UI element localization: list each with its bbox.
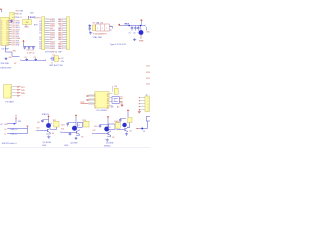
svg-text:IO21: IO21 [12,23,16,25]
svg-text:13: 13 [107,101,109,103]
red pin number U2 [8,21,9,23]
svg-text:IO21: IO21 [12,31,16,33]
svg-text:5V: 5V [61,58,64,60]
net label below Y1 [24,27,29,29]
svg-text:IO9: IO9 [16,40,19,42]
note text near SW [61,58,64,63]
svg-text:1K: 1K [81,137,84,139]
resistor R14 Q3 body [115,123,120,129]
svg-text:VIN: VIN [18,121,22,123]
svg-text:D4: D4 [53,23,55,25]
U1 reference label [2,48,10,50]
svg-text:VIN: VIN [16,14,20,16]
wire cap chain [24,59,44,61]
LED label below [139,41,144,43]
svg-text:3: 3 [148,104,149,106]
svg-text:21: 21 [6,36,8,38]
svg-text:30P: 30P [58,52,62,54]
svg-text:21: 21 [6,34,8,36]
net label beside flag [18,121,22,123]
svg-text:IO21: IO21 [12,27,16,29]
U3 left pin circles [87,95,89,101]
svg-text:B2: B2 [58,39,60,41]
transistor Q3 [108,131,111,136]
svg-text:14: 14 [107,98,109,100]
svg-text:D4: D4 [53,35,55,37]
SW1 name label [52,55,54,57]
svg-text:RXD: RXD [21,93,26,95]
svg-text:21: 21 [6,29,8,31]
XTAL caption [93,36,103,39]
svg-text:D15: D15 [16,43,19,45]
svg-text:5: 5 [95,103,96,105]
small label below right wire [143,131,146,133]
power flag Q1 [48,116,50,119]
svg-text:USB: USB [19,11,23,13]
R13 Q2 label [83,120,86,122]
svg-text:B2: B2 [58,35,60,37]
svg-text:P4 UART: P4 UART [6,100,15,103]
svg-text:5V: 5V [15,116,18,118]
svg-text:USB_D+: USB_D+ [11,129,18,131]
svg-text:5V: 5V [0,124,3,126]
resistor R15 Q4 body [128,118,132,123]
net arrow Q4 left [117,129,120,130]
svg-text:0603: 0603 [42,145,46,147]
capacitor C10 [24,47,27,50]
clipped net label right edge 3 [146,78,150,80]
rail 1 red label [4,124,8,126]
capacitor C12 [32,47,35,50]
svg-text:C6: C6 [133,33,135,35]
XTAL top labels [93,22,103,24]
junction dot rail left [128,25,130,27]
U1 right net labels outer [16,20,20,46]
U3 bottom-right net label red [117,105,119,108]
svg-text:D2: D2 [39,37,41,39]
svg-text:10: 10 [107,108,109,110]
svg-text:3: 3 [1,45,2,47]
svg-text:IO21: IO21 [12,43,16,45]
U3 right pin stubs [109,94,113,106]
svg-text:B2: B2 [58,32,60,34]
net arrows right of box [120,97,124,105]
svg-text:EXT HDR: EXT HDR [45,52,54,54]
svg-text:ESP32 DevKit v1: ESP32 DevKit v1 [2,142,17,145]
J2 pin net labels outer [58,19,60,50]
rail 1 blue label [0,124,3,126]
ground Q2 [75,137,78,140]
svg-text:3V3 TX: 3V3 TX [34,17,41,19]
caption Q1 row2 [42,145,46,147]
svg-text:R 26.000MHZ R: R 26.000MHZ R [93,33,107,35]
LED D2 cathode stem [140,35,142,39]
svg-text:D2: D2 [39,46,41,48]
svg-text:IO26: IO26 [146,72,150,74]
resistor box Q2 [78,122,83,127]
transistor Q2 [77,130,80,135]
svg-text:GND: GND [24,27,29,29]
rail 2 blue label [11,129,18,131]
caption Q2 [70,143,78,145]
svg-text:5V: 5V [143,131,146,133]
J5 ground (red) [138,110,141,113]
svg-text:D-: D- [5,134,7,136]
svg-text:C11: C11 [31,49,34,51]
net arrow Q2 left [61,132,65,134]
diode network box right of U3 [112,97,120,104]
power flag for cap bank [23,40,25,43]
svg-text:TX0: TX0 [16,20,19,22]
junction dot rail right [140,25,142,27]
rail 2 wire [7,128,27,130]
C3 label [33,57,35,59]
svg-text:G12: G12 [50,39,54,41]
net label EN on wire [13,51,16,53]
net flag red right edge [136,128,139,129]
svg-text:B2: B2 [58,44,60,46]
svg-text:TXD: TXD [21,90,25,92]
svg-text:Q3 GRN: Q3 GRN [106,143,114,145]
USB circuit caption [110,44,126,46]
svg-text:4: 4 [148,107,149,109]
J5 label above [146,95,148,97]
svg-text:o2: o2 [12,17,14,19]
svg-text:D4: D4 [53,44,55,46]
svg-text:5V0: 5V0 [16,11,19,13]
svg-text:IO4: IO4 [61,129,64,131]
svg-text:Q1 BLUE: Q1 BLUE [43,142,52,144]
svg-text:D4: D4 [53,41,55,43]
SW1 bottom red label [51,62,53,64]
svg-text:C1: C1 [19,17,21,19]
svg-text:USB_D-: USB_D- [11,134,18,136]
note text row 2 [1,68,13,70]
svg-text:RX0: RX0 [16,23,20,25]
svg-text:SD1: SD1 [16,27,20,29]
svg-text:2: 2 [95,96,96,98]
svg-text:B2: B2 [58,28,60,30]
svg-text:3: 3 [95,98,96,100]
capacitor C2 [26,58,29,62]
net label rows left of USB circuit [110,26,113,32]
svg-text:D4: D4 [53,46,55,48]
svg-text:1K: 1K [112,137,115,139]
svg-text:21: 21 [6,45,8,47]
svg-text:5V0: 5V0 [147,31,150,33]
rail 1 junction dot [13,123,15,125]
U2 net label row 2 [16,17,22,19]
svg-text:D2: D2 [39,30,41,32]
ground Q3 [106,139,109,142]
U3 left red wire [81,102,89,104]
svg-text:R9: R9 [115,86,117,88]
U1 right net labels [12,20,16,46]
svg-text:IO27: IO27 [146,78,150,80]
clipped net label right edge 2 [146,72,150,74]
svg-text:A0: A0 [117,105,119,108]
headers label [45,52,62,54]
svg-text:IO21: IO21 [12,34,16,36]
svg-text:D2: D2 [39,39,41,41]
regulator U2 body [10,12,15,19]
svg-text:IO21: IO21 [12,40,16,42]
resistor R9 body above U3 [114,88,118,94]
svg-text:IO14: IO14 [146,83,150,85]
clipped net label right edge 4 [146,83,150,85]
svg-text:IO5: IO5 [93,130,96,132]
svg-text:G12: G12 [50,28,54,30]
resistor R12 Q1 body [54,121,59,127]
svg-text:0.1uF x3: 0.1uF x3 [27,52,34,54]
clipped component box top-right [146,117,150,122]
wire Q1 base [40,130,48,132]
svg-text:C10: C10 [26,49,29,51]
R14 Q3 label [114,121,117,123]
C14 label Q3 [94,126,97,128]
svg-text:R12: R12 [53,120,56,122]
U2 top label row [16,11,24,13]
R value Q1 [52,133,55,135]
svg-text:D2: D2 [39,26,41,28]
ground below U1 [5,57,8,60]
svg-text:R13: R13 [83,120,86,122]
wire flag to rail 1 [15,119,17,124]
emitter wire Q1 [46,133,50,134]
svg-text:B2: B2 [58,46,60,48]
U2 pin stubs right [15,14,17,17]
resistor R13 Q2 body [84,121,89,127]
svg-text:D4: D4 [53,37,55,39]
svg-text:5: 5 [148,110,149,112]
svg-text:4: 4 [10,97,11,99]
U1 right pin stubs [9,21,11,45]
svg-text:IO2: IO2 [16,25,19,27]
svg-text:G: G [51,62,53,64]
svg-text:1: 1 [148,98,149,100]
J1 pin stubs [45,19,50,48]
frame line bottom (faint) [0,147,150,149]
svg-text:3: 3 [1,31,2,33]
capacitor C8 Q1 [41,120,44,123]
svg-text:C15: C15 [117,122,120,124]
svg-text:D2: D2 [39,28,41,30]
svg-text:XTAL 26M: XTAL 26M [93,36,103,39]
svg-text:IO21: IO21 [12,36,16,38]
svg-text:12: 12 [107,103,109,105]
svg-text:B2: B2 [58,21,60,23]
svg-text:1: 1 [95,94,96,96]
emitter wire Q2 [76,134,80,135]
svg-text:485: 485 [111,106,114,108]
net label Q3 left [93,130,96,132]
svg-text:D4: D4 [53,30,55,32]
transistor Q4 [125,127,128,132]
net label Q1 left [37,128,40,130]
svg-text:B2: B2 [58,23,60,25]
SW1 right red mark [59,58,61,60]
Y1 value label right [34,24,38,26]
connector P4 body [4,85,12,99]
P4 pin arrows and labels [17,86,25,95]
wire Q4 flag down [127,112,129,118]
svg-text:B2: B2 [58,37,60,39]
svg-text:Q2 RED: Q2 RED [70,143,78,145]
net label red right edge [147,31,150,33]
svg-text:21: 21 [6,23,8,25]
svg-text:RTS: RTS [81,102,85,104]
U3 left pin bundles [89,95,95,104]
LED D5 Q3 (blue blob) [104,126,110,131]
svg-text:SW1 BOOT EN: SW1 BOOT EN [49,65,63,67]
svg-text:6: 6 [95,105,96,107]
J2 pin net labels [59,19,63,50]
net flag red left of rail [119,24,121,26]
net label above [30,12,34,14]
svg-text:D2: D2 [39,48,41,50]
capacitor C6 [134,26,136,31]
capacitor C7 [137,26,140,31]
rail 1 wire [7,123,16,125]
XTAL ground [89,32,92,35]
capacitor C3 [35,58,38,61]
svg-text:D2: D2 [39,44,41,46]
svg-text:3: 3 [1,40,2,42]
svg-text:D4: D4 [53,32,55,34]
svg-text:VCC: VCC [21,87,26,89]
svg-text:3: 3 [1,27,2,29]
svg-text:IO21: IO21 [12,29,16,31]
SW1 left contact bars [50,57,53,61]
net arrow Q3 left [92,133,96,134]
svg-text:1: 1 [10,88,11,90]
R value Q2 [81,137,84,139]
svg-text:Type-C 5.0V-3.3V: Type-C 5.0V-3.3V [110,44,126,46]
net flag left arrow [21,60,24,62]
J1 left net labels [39,21,41,50]
U2 net label row 1 [16,14,23,16]
svg-text:U5V: U5V [30,12,34,14]
wire Q4 base [120,129,126,131]
svg-text:0603: 0603 [64,145,68,147]
R9 top stub [112,86,114,92]
U1 left-side pin numbers [1,20,2,46]
SW1 value label [49,65,63,67]
svg-text:D4: D4 [53,48,55,50]
svg-text:G23: G23 [59,41,63,43]
svg-text:C4: C4 [52,55,54,57]
svg-text:4: 4 [95,101,96,103]
LED D3 Q1 (blue blob) [46,123,52,128]
svg-text:D2: D2 [39,32,41,34]
net flag right arrow [43,60,46,62]
XTAL right wire [110,26,113,28]
svg-text:IO21: IO21 [12,45,16,47]
IC U3 body (CH340) [95,92,109,110]
J1 pin net labels [50,19,54,50]
capacitor C14 Q3 [99,124,102,128]
rail 2 red label [5,129,7,131]
bottom note text left [2,142,17,145]
ground Q4 [125,133,128,136]
capacitor Q2 bottom [69,132,72,135]
R9 top label [115,86,117,88]
svg-text:3: 3 [1,42,2,44]
wire Q3 flag down [100,119,108,127]
svg-text:IO21: IO21 [12,25,16,27]
LED D6 Q4 (blue blob) [122,123,127,127]
svg-text:CLK: CLK [16,29,20,31]
net label above Y1 [28,16,36,19]
R value Q3 [112,137,115,139]
capacitor left of crystal [89,24,92,31]
svg-text:5V: 5V [20,14,23,16]
svg-text:21: 21 [6,40,8,42]
capacitor C5 [131,26,134,31]
svg-text:SS8050: SS8050 [104,146,110,148]
svg-text:D4: D4 [53,19,55,21]
C11 label [31,49,34,51]
svg-text:D2: D2 [39,21,41,23]
svg-text:CM0: CM0 [16,38,20,40]
power flag rail 2 right [26,126,28,134]
svg-text:U3 CH340C: U3 CH340C [97,110,108,112]
svg-text:VIN: VIN [4,124,8,126]
IC U1 body (ESP module) [1,17,9,45]
svg-text:R4: R4 [93,23,95,25]
svg-text:2.54: 2.54 [54,52,58,54]
caption Q3 row2 [104,146,110,148]
crystal X1 box (pink outline) [96,24,110,31]
power flag Q3 [107,116,109,119]
svg-text:IO4: IO4 [16,36,19,38]
svg-text:3: 3 [1,34,2,36]
svg-text:C3: C3 [33,57,35,59]
clipped net label right edge 1 [146,65,150,67]
caption Q1 [43,142,52,144]
wire Q2 base [64,131,77,133]
C10 label [26,49,29,51]
svg-text:EN: EN [61,61,64,63]
svg-text:EN: EN [9,57,12,59]
J2 pin stubs [63,19,67,48]
ground Q1 [47,136,50,139]
svg-text:STATUS: STATUS [42,113,50,116]
R12 Q1 label [53,120,56,122]
note text row 1 [1,63,18,65]
resistor R6 body (yellow) [92,25,95,31]
svg-text:7: 7 [95,108,96,110]
wire R12 to collector Q1 [50,127,56,130]
J5 pin stubs [139,97,145,110]
C7 label [137,32,139,34]
LED D2 (blue blob) [139,26,144,35]
svg-text:2: 2 [10,91,11,93]
U3 bottom-right net label blue [111,106,114,108]
svg-text:B2: B2 [58,30,60,32]
svg-text:D17: D17 [16,34,19,36]
svg-text:16: 16 [107,94,109,96]
C5 label [129,33,131,35]
C8 label Q1 [37,122,39,124]
U3 caption [97,110,108,112]
svg-text:IO8: IO8 [16,45,19,47]
svg-text:21: 21 [6,38,8,40]
LED D4 Q2 (blue blob) [72,126,78,131]
rail 3 blue label [11,134,18,136]
C15 label Q4 [117,122,120,124]
wire Q2 flag down [68,117,76,126]
